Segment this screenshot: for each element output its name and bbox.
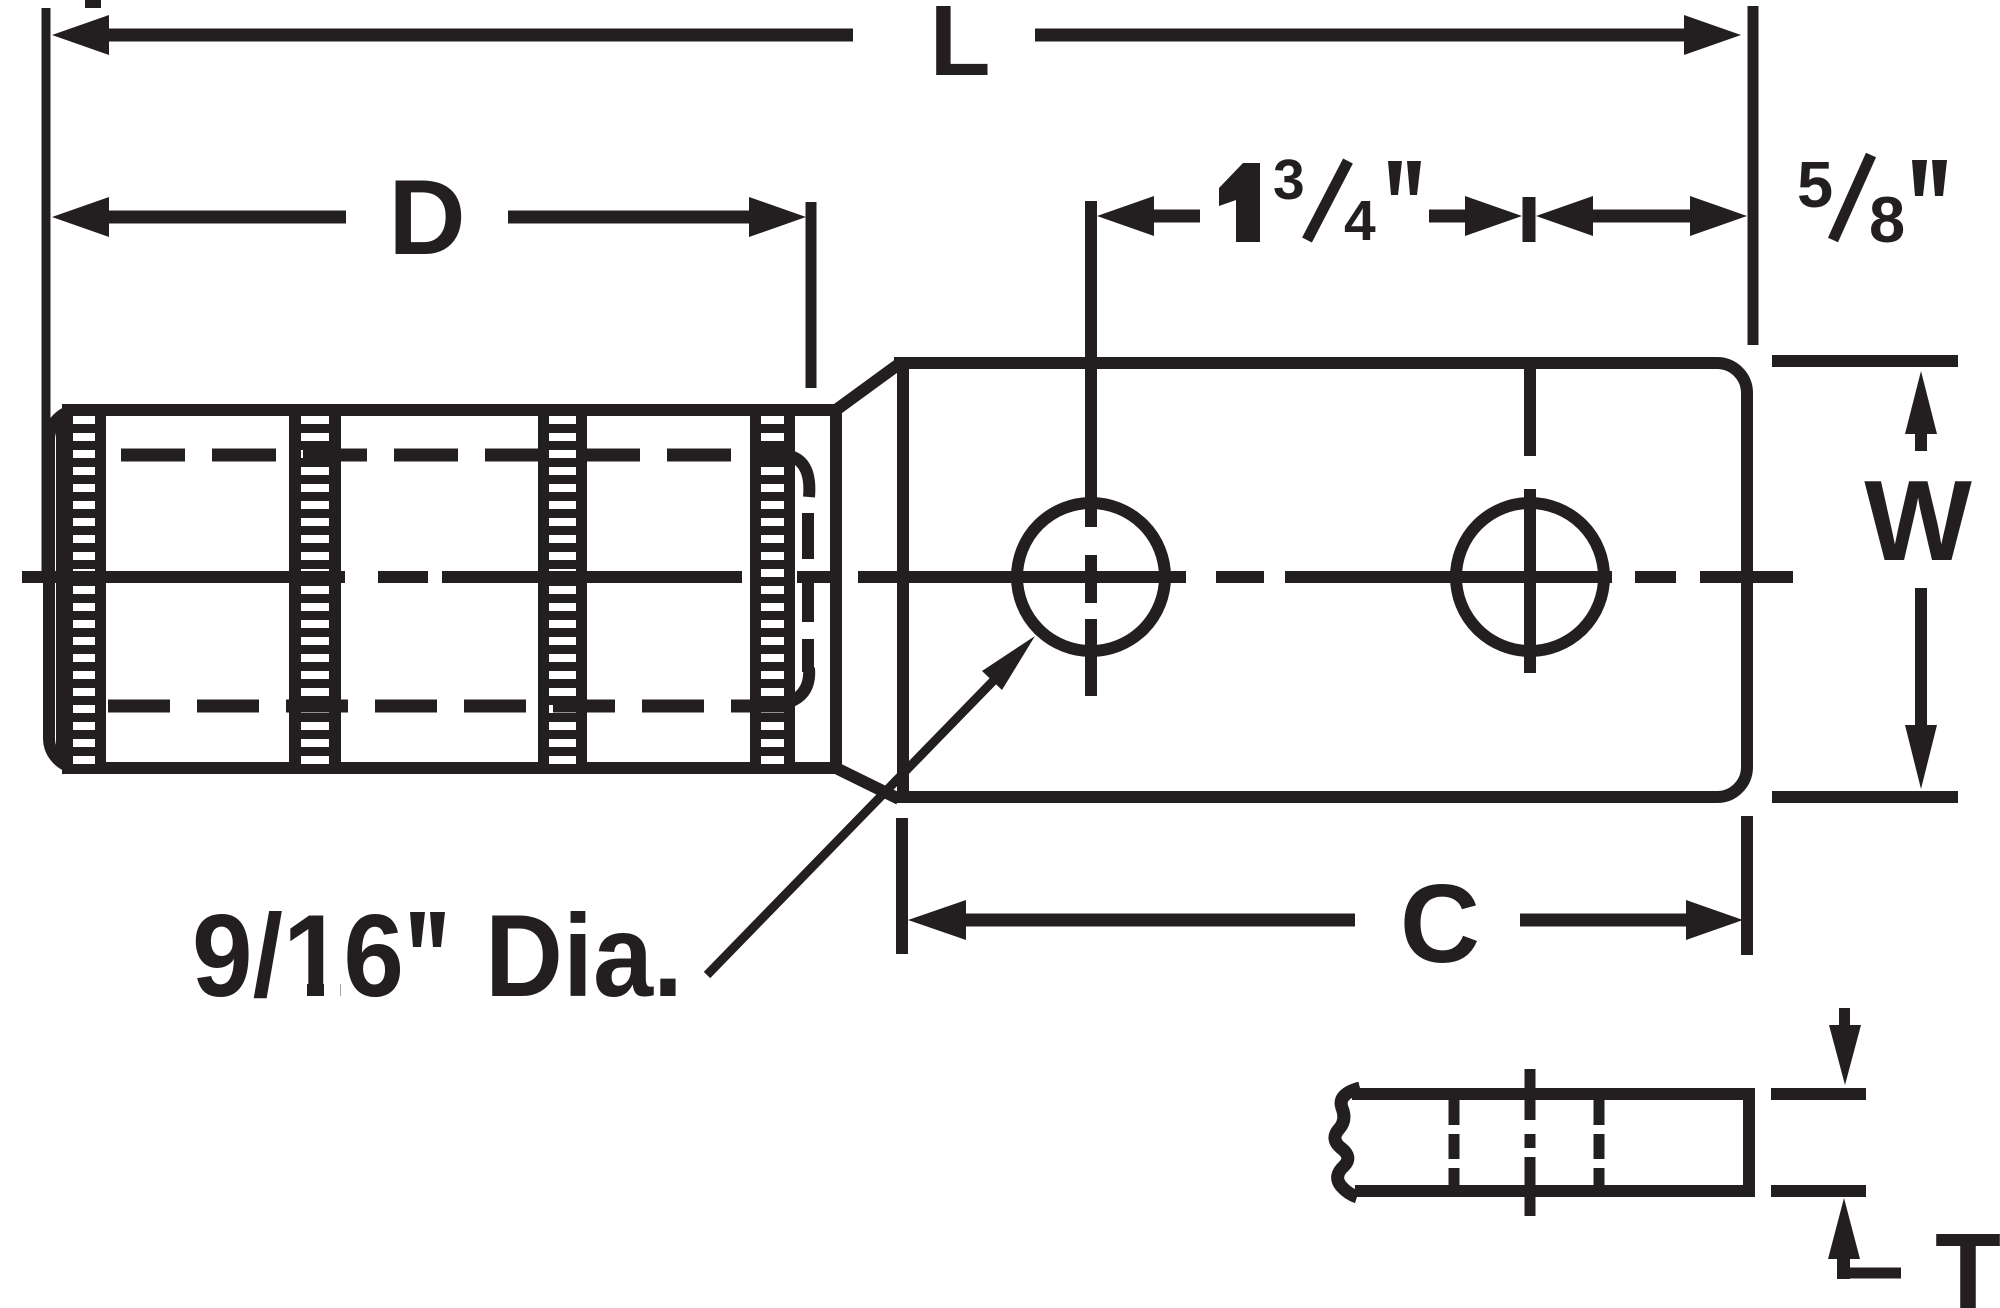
- dimension C: left shaft: [963, 914, 1355, 927]
- center line: [22, 571, 1793, 583]
- dimension W: up arrow: [1905, 371, 1937, 434]
- dimension L: left shaft: [106, 29, 853, 42]
- dimension C: left arrowhead: [908, 900, 966, 940]
- dimension 5-8: right arrowhead: [1690, 196, 1747, 236]
- svg-text:3: 3: [1273, 148, 1305, 212]
- dimension 1-3/4: left shaft: [1151, 210, 1200, 223]
- svg-text:C: C: [1400, 862, 1480, 986]
- svg-text:4: 4: [1344, 189, 1376, 253]
- dimension 1-3/4 / 5-8: shared tick: [1523, 197, 1536, 242]
- hole 1: [1017, 503, 1165, 651]
- dimension W: down arrow: [1915, 588, 1927, 728]
- svg-text:Dia.: Dia.: [485, 890, 683, 1021]
- side view: hidden hole edge left: [1449, 1100, 1460, 1185]
- dimension 1-3/4: right shaft: [1429, 210, 1467, 223]
- taper top diagonal: [836, 364, 899, 410]
- tongue outline: [894, 363, 1747, 797]
- dimension T: bottom extension line: [1771, 1185, 1866, 1197]
- dimension D: right arrowhead: [749, 197, 806, 237]
- dimension D: right shaft: [508, 211, 749, 224]
- dimension D: left shaft: [106, 211, 346, 224]
- dimension T: leader to label: [1837, 1268, 1901, 1279]
- svg-text:9/16: 9/16: [192, 890, 404, 1021]
- dimension L: right shaft: [1035, 29, 1687, 42]
- dimension T: top arrow: [1839, 1008, 1850, 1030]
- hole 2 vertical center line: [1524, 369, 1536, 456]
- dimension 1-3/4: label 1: [1219, 163, 1260, 242]
- barrel end line: [830, 404, 842, 774]
- bore hidden line bottom: [108, 700, 792, 713]
- svg-text:T: T: [1935, 1210, 2000, 1308]
- side view: hole center line: [1525, 1069, 1536, 1216]
- barrel inner lip: [56, 424, 62, 754]
- dimension 5-8: shaft: [1590, 210, 1693, 223]
- stray mark top left: [85, 0, 101, 8]
- dimension 1-3/4: fraction slash: [1307, 161, 1348, 240]
- dimension T: bottom arrow: [1828, 1198, 1860, 1259]
- dimension T: top extension line: [1771, 1088, 1866, 1100]
- dimension C: left extension line: [896, 818, 908, 954]
- side view: break wave: [1335, 1088, 1360, 1197]
- side view: right edge: [1743, 1088, 1755, 1197]
- dimension 1-3/4: right arrowhead: [1465, 196, 1522, 236]
- dimension 1-3/4: inch marks: [1388, 161, 1402, 195]
- tongue left edge: [897, 357, 909, 803]
- dimension L: left extension line: [42, 8, 51, 582]
- barrel outline: [49, 410, 836, 768]
- dimension D: right extension line: [806, 202, 817, 388]
- dimension L: right arrowhead: [1684, 15, 1741, 55]
- dimension L / 5-8: right extension line: [1748, 6, 1759, 345]
- dimension L: left arrowhead: [52, 15, 109, 55]
- svg-text:5: 5: [1797, 148, 1833, 221]
- dimension 5-8: inch marks: [1912, 160, 1927, 196]
- bore hidden line top: [121, 449, 792, 462]
- dimension 5-8: fraction slash: [1833, 155, 1871, 240]
- hole 2: [1456, 503, 1604, 651]
- svg-text:D: D: [388, 157, 465, 277]
- dimension 1-3/4: left arrowhead: [1097, 196, 1154, 236]
- bore end hidden line: [802, 513, 814, 672]
- dimension D: left arrowhead: [52, 197, 109, 237]
- svg-text:8: 8: [1869, 183, 1905, 256]
- knurl band 3: [538, 404, 587, 774]
- side view: bottom edge: [1355, 1185, 1755, 1197]
- svg-text:W: W: [1864, 458, 1972, 585]
- knurl band 4: [750, 404, 795, 774]
- dimension W: bottom extension line: [1772, 791, 1958, 803]
- svg-text:L: L: [929, 0, 990, 97]
- dimension C: right shaft: [1520, 914, 1689, 927]
- side view: top edge: [1352, 1088, 1749, 1100]
- knurl band 2: [289, 404, 341, 774]
- dimension W: top extension line: [1772, 355, 1958, 367]
- hole 1 vertical center line: [1085, 201, 1097, 527]
- taper bottom diagonal: [836, 768, 899, 799]
- dimension C: right extension line: [1741, 816, 1753, 955]
- knurl band 1: [62, 404, 106, 774]
- side view: hidden hole edge right: [1594, 1100, 1605, 1185]
- bore end hidden arc bottom hook: [792, 668, 809, 701]
- leader line 9/16 Dia.: [707, 677, 997, 975]
- bore end hidden arc top hook: [790, 456, 809, 497]
- leader arrowhead: [982, 636, 1035, 690]
- dimension C: right arrowhead: [1686, 900, 1743, 940]
- dimension 5-8: left arrowhead: [1536, 196, 1593, 236]
